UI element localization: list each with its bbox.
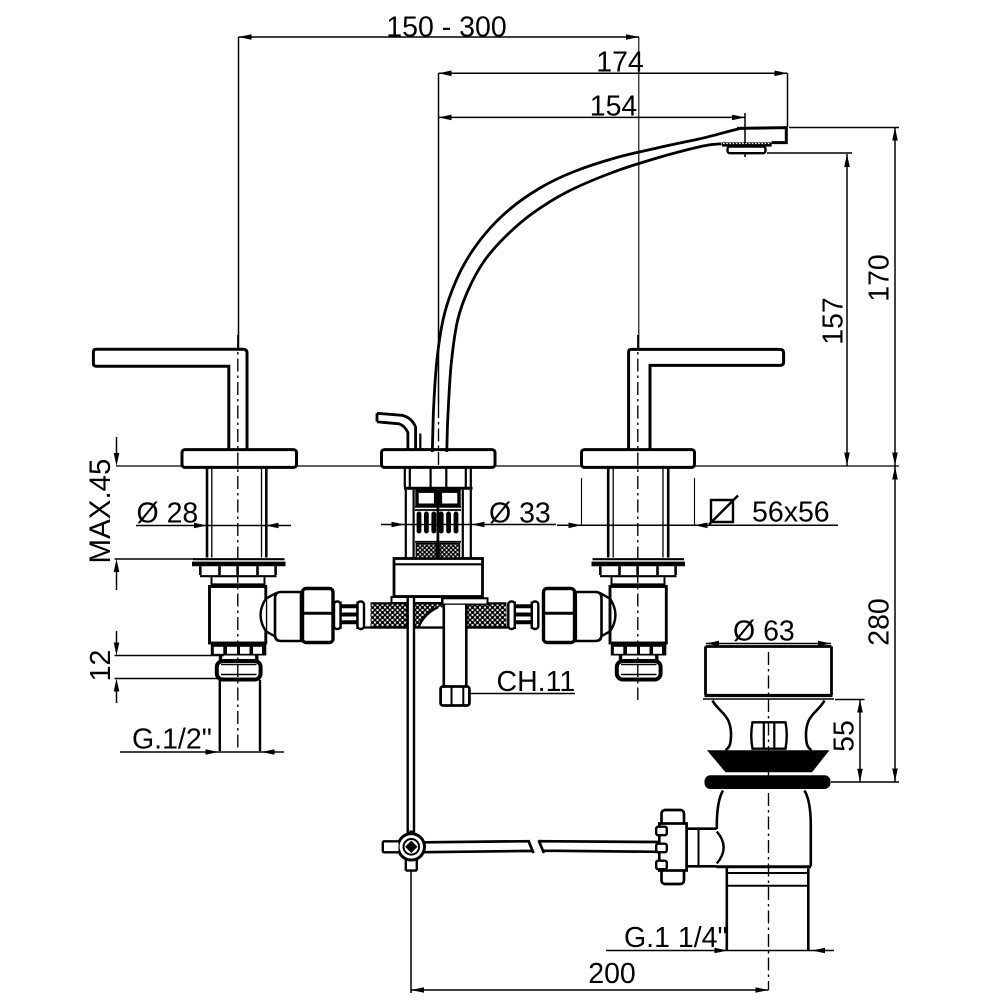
tee left port bbox=[383, 841, 399, 852]
dim 154 arrows bbox=[439, 115, 746, 121]
cartridge mid line bbox=[415, 541, 461, 543]
drain tailpipe bbox=[727, 868, 809, 950]
right valve neck bbox=[621, 656, 657, 662]
svg-text:56x56: 56x56 bbox=[752, 496, 830, 528]
dim G.1/2 line bbox=[120, 751, 284, 753]
spout head bbox=[737, 128, 786, 143]
stud hex CH.11 bbox=[441, 687, 470, 706]
aerator ring bbox=[722, 142, 772, 146]
mixed outlet stud bbox=[445, 605, 465, 686]
center block lower tabs bbox=[392, 597, 443, 603]
left valve lower flange bbox=[193, 558, 285, 560]
drain port joint bbox=[698, 829, 700, 866]
ref lines 12 bbox=[115, 656, 225, 679]
dim 12 lower arrow bbox=[116, 691, 118, 703]
dim 200 line bbox=[411, 989, 769, 991]
drain neck bbox=[713, 701, 825, 751]
left valve shaft bbox=[207, 468, 266, 558]
dim 174 line bbox=[439, 72, 788, 74]
dim 157 line bbox=[846, 154, 848, 466]
svg-text:G.1 1/4": G.1 1/4" bbox=[624, 922, 728, 954]
svg-text:G.1/2": G.1/2" bbox=[132, 724, 212, 756]
left valve body neck bbox=[212, 577, 266, 586]
right valve lower flange bbox=[593, 558, 685, 560]
centerline spout bbox=[438, 405, 440, 467]
svg-text:Ø 28: Ø 28 bbox=[137, 497, 199, 529]
svg-text:Ø 63: Ø 63 bbox=[733, 616, 795, 648]
hose elbow at center bbox=[419, 607, 444, 626]
ref line drain flange to 55 bbox=[835, 699, 865, 701]
right valve collar ring bbox=[600, 566, 675, 575]
cartridge caps bbox=[417, 491, 436, 505]
extension line drain rod to 200 bbox=[410, 871, 412, 993]
centerline right valve bbox=[637, 335, 639, 700]
svg-text:170: 170 bbox=[864, 254, 896, 302]
cartridge band bbox=[415, 507, 461, 510]
spout inner curve bbox=[447, 144, 722, 452]
dim Ø33 line bbox=[381, 524, 556, 526]
left hose crimp bbox=[334, 602, 364, 630]
center block bbox=[394, 559, 483, 597]
centerline left valve bbox=[237, 335, 239, 751]
svg-text:154: 154 bbox=[590, 91, 638, 123]
hose elbow arc bbox=[419, 607, 438, 626]
dim 170 line bbox=[894, 128, 896, 466]
dim 280 arrows bbox=[892, 467, 898, 782]
cartridge bellows bbox=[417, 512, 459, 534]
right escutcheon bbox=[582, 450, 695, 468]
cartridge hatch blocks bbox=[416, 544, 436, 559]
dim G.1/2 arrows bbox=[206, 749, 275, 755]
svg-text:55: 55 bbox=[829, 720, 861, 752]
pop-up horizontal rod right segment with break bbox=[539, 840, 658, 853]
left valve body bbox=[210, 587, 266, 644]
dim 150-300 line bbox=[239, 36, 640, 38]
dim Ø63 line bbox=[706, 643, 831, 645]
dim Ø63 arrows bbox=[706, 641, 831, 647]
right handle lever bbox=[629, 349, 784, 450]
svg-text:280: 280 bbox=[864, 598, 896, 646]
ref line flange to MAX.45 bbox=[115, 558, 194, 560]
right hose crimp bbox=[508, 602, 538, 630]
dim 55 arrows bbox=[857, 700, 863, 782]
dim 56x56 arrows bbox=[569, 523, 708, 529]
drain top cup bbox=[706, 647, 832, 696]
dim 154 line bbox=[439, 116, 746, 118]
svg-text:CH.11: CH.11 bbox=[497, 666, 576, 698]
right hose nut bbox=[544, 589, 575, 643]
drain body bbox=[717, 791, 811, 867]
right valve body bbox=[610, 587, 666, 644]
dim 55 line bbox=[859, 700, 861, 782]
dim G.1 1/4 arrows bbox=[715, 948, 826, 954]
tee joint square bbox=[405, 841, 417, 853]
cartridge ledge bbox=[404, 487, 473, 490]
drain port arc bbox=[717, 832, 724, 864]
svg-text:150 - 300: 150 - 300 bbox=[386, 11, 506, 43]
extension line spout tip right bbox=[787, 73, 789, 127]
dim G.1 1/4 line bbox=[606, 950, 834, 952]
spout outer curve bbox=[432, 129, 739, 452]
drain plug slot bbox=[751, 722, 787, 748]
left valve knurled adapter bbox=[211, 644, 266, 656]
svg-text:12: 12 bbox=[85, 650, 117, 682]
left valve collar ring bbox=[200, 566, 275, 575]
center escutcheon bbox=[382, 450, 496, 468]
pop-up horizontal rod left segment bbox=[424, 840, 534, 853]
svg-text:157: 157 bbox=[818, 297, 850, 345]
right valve nipple bbox=[617, 661, 661, 680]
right valve knurled adapter bbox=[611, 644, 667, 656]
drain tailpipe thread grooves bbox=[727, 873, 808, 886]
square section symbol bbox=[709, 496, 738, 525]
dim 150-300 arrows bbox=[239, 34, 640, 40]
left valve nipple G1/2 bbox=[217, 661, 261, 680]
pop-up rod knob bbox=[377, 413, 416, 449]
drain seal cone bbox=[707, 750, 830, 772]
cartridge center divider bbox=[436, 490, 439, 558]
dim 157 arrows bbox=[844, 154, 850, 466]
right valve shaft bbox=[613, 468, 663, 558]
dim 174 arrows bbox=[439, 71, 788, 77]
svg-text:Ø 33: Ø 33 bbox=[489, 497, 551, 529]
ref line drain washer to 280 bbox=[831, 781, 899, 783]
dim MAX.45 lower arrow bbox=[116, 572, 118, 590]
aerator bbox=[728, 147, 766, 154]
centerline drain bbox=[768, 652, 770, 990]
left handle lever bbox=[93, 349, 247, 450]
pop-up rod upper bbox=[408, 597, 414, 833]
extension line right valve axis bbox=[638, 37, 640, 349]
dim Ø28 line bbox=[136, 525, 291, 527]
tee joint inner ring bbox=[404, 839, 420, 855]
ref line aerator to 157 bbox=[767, 152, 852, 154]
dim MAX.45 upper arrow bbox=[116, 437, 118, 453]
left valve port cone bbox=[261, 593, 276, 637]
left hose nut bbox=[303, 589, 334, 643]
dim Ø28 arrows bbox=[194, 523, 279, 529]
left valve supply tail tube bbox=[220, 680, 260, 751]
dim 280 line bbox=[894, 467, 896, 782]
left hose collar bbox=[275, 592, 301, 641]
braided flex hoses bbox=[371, 603, 507, 627]
dim 12 upper arrow bbox=[116, 631, 118, 643]
cartridge walls bbox=[406, 490, 471, 558]
tee top stub bbox=[409, 831, 414, 833]
drain washer bbox=[705, 775, 831, 789]
svg-text:200: 200 bbox=[588, 958, 636, 990]
right hose collar bbox=[576, 592, 602, 641]
extension line spout axis bbox=[438, 73, 440, 405]
drain cup bottom flange bbox=[705, 694, 833, 697]
drain knurled nut bbox=[662, 810, 685, 884]
extension lines 56x56 bbox=[582, 478, 695, 525]
right valve port cone bbox=[600, 593, 615, 637]
spout neck below escutcheon bbox=[405, 468, 471, 487]
dim Ø33 arrows bbox=[392, 522, 485, 528]
left escutcheon bbox=[182, 450, 297, 468]
dim 170 arrows bbox=[892, 128, 898, 466]
extension line left valve axis bbox=[238, 37, 240, 349]
svg-text:174: 174 bbox=[596, 46, 644, 78]
pop-up tee joint outer bbox=[398, 834, 424, 860]
tee bottom port bbox=[406, 860, 417, 871]
extension line aerator axis bbox=[744, 113, 746, 157]
dim 200 arrows bbox=[411, 987, 769, 993]
deck reference line bbox=[116, 465, 899, 467]
dim 56x56 line bbox=[557, 524, 838, 526]
dim CH.11 leader bbox=[470, 693, 575, 695]
pop-up rod behind escutcheon bbox=[419, 434, 421, 450]
left valve neck bbox=[221, 656, 257, 662]
svg-text:MAX.45: MAX.45 bbox=[84, 459, 117, 564]
ref line spout top to 170 bbox=[789, 127, 899, 129]
right valve body neck bbox=[612, 577, 666, 586]
drain side port bbox=[687, 829, 717, 867]
